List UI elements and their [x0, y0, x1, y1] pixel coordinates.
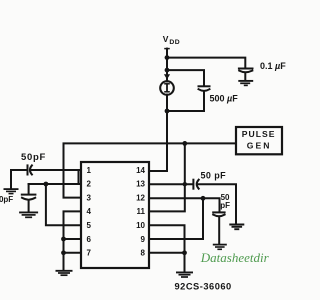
- svg-text:PULSE: PULSE: [242, 129, 276, 139]
- svg-text:14: 14: [136, 166, 145, 175]
- svg-text:92CS-36060: 92CS-36060: [175, 281, 232, 291]
- svg-text:50pF: 50pF: [0, 195, 13, 204]
- svg-text:50pF: 50pF: [21, 152, 46, 163]
- svg-text:8: 8: [141, 249, 146, 258]
- svg-text:9: 9: [141, 235, 146, 244]
- svg-text:10: 10: [136, 221, 145, 230]
- svg-text:5: 5: [87, 221, 92, 230]
- svg-text:2: 2: [87, 180, 92, 189]
- svg-text:V: V: [163, 34, 169, 44]
- svg-text:11: 11: [137, 207, 146, 216]
- svg-text:6: 6: [87, 235, 92, 244]
- svg-text:GEN: GEN: [247, 140, 272, 150]
- svg-text:500 µF: 500 µF: [210, 94, 239, 104]
- svg-text:7: 7: [87, 249, 92, 258]
- svg-text:4: 4: [87, 207, 92, 216]
- svg-text:12: 12: [136, 193, 145, 202]
- svg-text:pF: pF: [220, 201, 230, 210]
- svg-text:3: 3: [87, 193, 92, 202]
- svg-text:Datasheetdir: Datasheetdir: [200, 250, 270, 265]
- svg-text:0.1 µF: 0.1 µF: [260, 61, 286, 71]
- svg-text:13: 13: [136, 180, 145, 189]
- svg-text:50 pF: 50 pF: [201, 171, 227, 181]
- svg-text:1: 1: [87, 166, 92, 175]
- svg-text:DD: DD: [169, 39, 180, 46]
